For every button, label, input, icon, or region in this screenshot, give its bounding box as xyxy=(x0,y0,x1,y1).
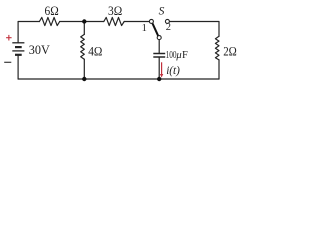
node junction dot top (4ohm) xyxy=(82,19,86,23)
svg-text:2: 2 xyxy=(166,22,171,33)
switch S lever xyxy=(153,23,159,36)
resistor R 2ohm vertical zigzag xyxy=(215,36,219,60)
svg-text:4Ω: 4Ω xyxy=(88,44,102,58)
svg-text:F: F xyxy=(182,50,188,61)
wire switch terminal 2 to top-right corner xyxy=(170,22,219,37)
svg-text:100: 100 xyxy=(166,50,177,61)
current arrow i(t) red xyxy=(160,62,163,77)
node junction dot bottom (4ohm) xyxy=(82,77,86,81)
battery plus sign red xyxy=(6,35,12,41)
switch terminal 1 circle xyxy=(149,19,153,23)
wire 3ohm to switch terminal 1 xyxy=(124,21,149,23)
battery V 30V plates xyxy=(12,43,24,55)
wire top middle xyxy=(60,21,104,23)
wire 4ohm branch lower xyxy=(83,59,85,79)
wire left below battery xyxy=(17,55,19,79)
resistor R 6ohm zigzag xyxy=(39,17,59,25)
resistor R 4ohm vertical zigzag xyxy=(81,34,85,59)
wire capacitor branch upper xyxy=(158,40,160,53)
svg-text:S: S xyxy=(159,6,165,18)
switch terminal 2 circle xyxy=(165,19,169,23)
wire top-left horizontal xyxy=(18,22,39,43)
svg-text:μ: μ xyxy=(175,50,181,61)
wire 4ohm branch upper xyxy=(83,22,85,35)
switch common terminal circle xyxy=(157,36,161,40)
svg-text:2Ω: 2Ω xyxy=(223,44,237,58)
wire capacitor branch lower xyxy=(158,58,160,79)
svg-text:6Ω: 6Ω xyxy=(45,4,59,18)
svg-text:3Ω: 3Ω xyxy=(108,4,122,18)
battery minus sign xyxy=(4,61,11,63)
wire bottom horizontal xyxy=(18,78,219,80)
svg-text:i(t): i(t) xyxy=(166,65,180,77)
svg-text:1: 1 xyxy=(142,23,147,34)
resistor R 3ohm zigzag xyxy=(104,17,124,25)
capacitor C 100uF plates xyxy=(153,54,165,58)
svg-text:30V: 30V xyxy=(29,43,50,57)
wire right-bottom vertical xyxy=(218,60,220,79)
node junction dot bottom (capacitor) xyxy=(157,77,161,81)
